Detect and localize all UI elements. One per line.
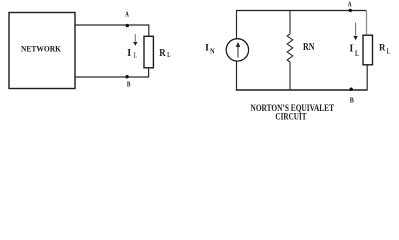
wire middle branch upper: [289, 10, 291, 34]
node A left dot: [126, 24, 129, 27]
svg-text:L: L: [134, 51, 137, 59]
wire bottom right loop: [236, 89, 367, 91]
node B right dot: [350, 88, 353, 91]
svg-text:A: A: [348, 0, 352, 9]
node A right dot: [349, 9, 352, 12]
current source IN circle: [226, 39, 248, 61]
resistor RN zigzag: [287, 34, 293, 62]
current source IN arrow head: [236, 42, 241, 47]
network box N1: [9, 13, 75, 89]
svg-text:I: I: [127, 48, 131, 59]
svg-text:RN: RN: [303, 42, 315, 53]
current arrow IL2 shaft: [355, 23, 357, 37]
resistor RL1 body: [144, 36, 153, 68]
svg-text:A: A: [125, 10, 129, 19]
wire top right loop: [237, 10, 367, 12]
svg-text:B: B: [127, 79, 131, 88]
current arrow IL1 head: [133, 42, 137, 46]
node B left dot: [125, 75, 128, 78]
wire right branch upper (gray): [366, 10, 368, 35]
wire middle branch lower: [289, 62, 291, 90]
wire top left (box to corner): [75, 24, 149, 26]
svg-text:CIRCUIT: CIRCUIT: [275, 111, 307, 122]
wire left branch upper: [236, 10, 238, 39]
svg-text:NETWORK: NETWORK: [21, 43, 61, 53]
svg-text:I: I: [349, 44, 353, 55]
svg-text:I: I: [205, 44, 209, 54]
svg-text:L: L: [167, 51, 170, 59]
current arrow IL2 head: [353, 36, 357, 40]
resistor RL2 body: [363, 35, 373, 65]
svg-text:R: R: [159, 48, 166, 59]
wire right branch lower: [366, 65, 368, 91]
wire corner down to RL1: [148, 24, 150, 36]
svg-text:L: L: [355, 49, 359, 58]
wire bottom left (corner to box): [75, 76, 149, 78]
svg-text:R: R: [379, 44, 386, 54]
svg-text:B: B: [350, 96, 354, 105]
svg-text:L: L: [387, 48, 391, 56]
wire RL1 bottom down: [148, 68, 150, 77]
wire left branch lower: [236, 61, 238, 90]
current source IN arrow shaft: [237, 47, 239, 58]
svg-text:N: N: [210, 46, 215, 55]
current arrow IL1 shaft: [134, 34, 136, 42]
